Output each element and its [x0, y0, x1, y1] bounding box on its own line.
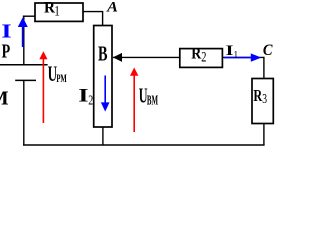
- svg-text:2: 2: [88, 94, 93, 109]
- svg-text:М: М: [0, 88, 9, 110]
- battery PM: short bottom plate: [15, 79, 36, 81]
- svg-text:РМ: РМ: [56, 71, 66, 85]
- wire: left vertical branch upper (node to battery top plate): [23, 16, 25, 65]
- resistor R3: [252, 79, 273, 124]
- current I1 blue arrow (right): [224, 53, 261, 61]
- voltage U_BM red arrow (up): [130, 68, 138, 133]
- wire: R3 bottom stub: [263, 124, 265, 146]
- wire: B bottom stub: [102, 127, 104, 145]
- svg-text:ВМ: ВМ: [147, 92, 158, 107]
- battery PM: long top plate: [0, 64, 48, 66]
- svg-text:B: B: [98, 42, 108, 66]
- voltage U_PM red arrow (up): [39, 51, 47, 123]
- black arrow into B (pointing left): [113, 53, 122, 62]
- svg-text:I: I: [1, 21, 11, 42]
- current I blue arrow (up, top-left): [18, 17, 28, 47]
- wire: left vertical branch lower (battery to bottom wire): [23, 80, 25, 145]
- resistor R1: [35, 3, 83, 21]
- wire: bottom horizontal: [23, 144, 265, 146]
- svg-text:2: 2: [201, 50, 206, 66]
- wire: top-left horizontal from left branch to R1: [23, 15, 35, 17]
- svg-text:3: 3: [262, 91, 267, 106]
- svg-text:I: I: [78, 85, 88, 106]
- svg-text:P: P: [2, 41, 11, 63]
- svg-text:C: C: [263, 42, 273, 59]
- svg-text:A: A: [106, 0, 118, 16]
- current I2 blue arrow (down, inside B): [101, 76, 110, 112]
- wire: R1 right to node A corner: [83, 12, 103, 26]
- svg-text:R: R: [191, 46, 201, 63]
- svg-text:1: 1: [234, 49, 239, 61]
- wire: middle horizontal B to R2: [113, 56, 180, 58]
- element B box: [94, 26, 112, 128]
- resistor R2: [180, 49, 223, 68]
- wire: R2 right to node C corner then down to R3: [222, 57, 264, 78]
- svg-text:1: 1: [54, 4, 60, 20]
